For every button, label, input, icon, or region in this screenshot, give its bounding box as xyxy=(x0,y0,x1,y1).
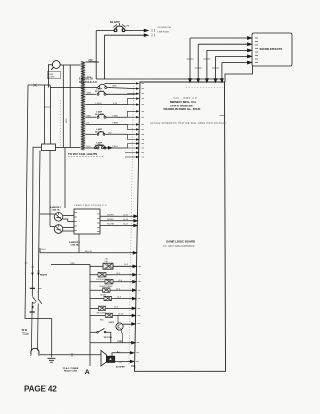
pin ticks speaker xyxy=(136,353,139,362)
svg-text:W-RED: W-RED xyxy=(107,219,114,221)
svg-text:6.3V: 6.3V xyxy=(113,103,118,105)
coil K5 xyxy=(90,296,136,300)
svg-text:115 VOLTS: 115 VOLTS xyxy=(79,77,93,81)
wire fuse line to plug arrow xyxy=(96,29,154,37)
credit multiplier board xyxy=(74,209,100,234)
wire blu-w line xyxy=(40,248,137,254)
svg-text:TILT SW.: TILT SW. xyxy=(104,337,113,339)
svg-text:BLU-W: BLU-W xyxy=(85,251,92,253)
transistor Q1 xyxy=(116,316,135,343)
svg-text:40 W: 40 W xyxy=(22,329,28,332)
wire tap fuse line 117.2 xyxy=(85,116,96,118)
pin tick pur xyxy=(137,342,140,344)
svg-text:W-ORN: W-ORN xyxy=(107,224,115,226)
svg-text:Y-BRN: Y-BRN xyxy=(112,123,119,125)
svg-text:16-17: 16-17 xyxy=(123,224,129,226)
tick on primary pair xyxy=(44,106,51,108)
thin tick right xyxy=(39,287,42,289)
connector tick marks on verticals xyxy=(187,59,220,68)
svg-text:FRANKLIN PARK ILL. 60131: FRANKLIN PARK ILL. 60131 xyxy=(164,107,202,111)
bold tick marks on bus xyxy=(30,288,35,312)
wire vertical from stub line xyxy=(104,35,106,79)
wire plug to transformer xyxy=(48,65,80,88)
svg-text:BELL: BELL xyxy=(100,320,105,322)
interlock switch box xyxy=(42,144,56,151)
label BLK tick xyxy=(89,61,96,63)
sound board pin ticks xyxy=(255,38,258,63)
junction tick xyxy=(71,353,73,357)
wire into box left xyxy=(33,65,112,153)
fuse F4 xyxy=(97,114,106,118)
wire red feed xyxy=(51,264,90,341)
wire AC bus left xyxy=(25,85,52,357)
junction mark on ac line xyxy=(34,84,37,87)
wire color labels xyxy=(87,86,119,149)
svg-text:SOUND EFFECTS: SOUND EFFECTS xyxy=(260,47,283,51)
svg-text:MIDWAY MFG. CO.: MIDWAY MFG. CO. xyxy=(170,100,197,104)
svg-text:RED: RED xyxy=(87,115,92,117)
svg-text:115V: 115V xyxy=(66,118,68,123)
underline dashes xyxy=(68,156,104,158)
svg-text:GRN: GRN xyxy=(112,86,117,88)
wire stub line 2 xyxy=(105,34,145,36)
svg-text:SLOW BLOW: SLOW BLOW xyxy=(158,27,172,29)
bus arrowheads xyxy=(31,273,40,276)
wire line 4 xyxy=(216,55,249,57)
transformer top tap xyxy=(85,61,99,63)
svg-text:Y-RED: Y-RED xyxy=(112,115,119,117)
wire line 5 xyxy=(222,62,249,64)
svg-text:CREDIT RELAY: CREDIT RELAY xyxy=(99,285,113,288)
svg-text:GRN: GRN xyxy=(87,92,92,94)
wire credit feed xyxy=(64,148,66,209)
ground xyxy=(48,358,56,362)
svg-text:GAME LOGIC BOARD: GAME LOGIC BOARD xyxy=(166,240,195,244)
svg-text:CON 7A: CON 7A xyxy=(52,208,60,211)
fuse F1 xyxy=(114,23,126,32)
svg-text:P.C. ASSY A080-91386-B000: P.C. ASSY A080-91386-B000 xyxy=(163,245,195,248)
wire tap 124.5 with fork down xyxy=(85,124,127,126)
wire pur line 1 xyxy=(90,341,135,344)
wires meters to credit board xyxy=(40,151,74,232)
svg-text:CORD: CORD xyxy=(49,77,56,79)
coil K7 xyxy=(90,313,136,317)
svg-text:RELAY CONT.: RELAY CONT. xyxy=(64,370,78,373)
svg-text:Y-BLU: Y-BLU xyxy=(112,146,118,148)
wire tap fuse line 148 xyxy=(85,147,96,149)
svg-text:BLU: BLU xyxy=(87,146,91,148)
svg-text:4Ω SPKR: 4Ω SPKR xyxy=(116,365,125,368)
speaker SP1 xyxy=(101,351,115,367)
junction ticks on buses xyxy=(25,263,40,271)
wire vertical from fuse line xyxy=(95,31,97,80)
115V AC line xyxy=(96,78,222,80)
wire primary vertical long 2 xyxy=(69,65,71,148)
connector dashes xyxy=(152,29,155,37)
svg-text:60 CYCLE A.C.: 60 CYCLE A.C. xyxy=(79,80,98,84)
labels credit wires xyxy=(107,214,129,225)
svg-text:TO 25V CAB. LIGHTS: TO 25V CAB. LIGHTS xyxy=(68,152,97,156)
connector dashed line left of board xyxy=(129,86,134,366)
svg-text:16-16: 16-16 xyxy=(123,219,129,221)
meter M2 xyxy=(54,225,63,234)
wire plug stem down to box xyxy=(44,85,46,144)
wires to sound board: line 1 xyxy=(189,37,253,83)
svg-text:CREDIT MULTIPLIER P.C.: CREDIT MULTIPLIER P.C. xyxy=(74,205,108,207)
cabinet fuse F6 xyxy=(95,145,104,149)
tilt switch S2 xyxy=(90,329,111,343)
transformer T1 winding xyxy=(81,62,85,150)
lamp L1 xyxy=(31,348,40,356)
svg-text:LINE: LINE xyxy=(49,74,54,76)
door switch contacts xyxy=(31,297,41,351)
wire plug left drop xyxy=(48,65,52,88)
wire line 3 xyxy=(207,49,249,51)
fuse F6 xyxy=(97,145,106,149)
wire lamp to speaker line xyxy=(40,354,102,356)
wire credit box drop xyxy=(78,234,80,253)
wire primary vertical long 1 xyxy=(62,65,64,148)
coil K6 xyxy=(90,306,136,310)
wire speaker leads xyxy=(112,352,135,369)
fuse F2 xyxy=(98,84,107,88)
coil K2 lockout xyxy=(90,272,136,277)
svg-text:SLO-BLO: SLO-BLO xyxy=(95,114,104,116)
svg-text:RED/W: RED/W xyxy=(40,274,47,276)
wire box to transformer bottom xyxy=(56,147,81,149)
board left edge pin arrows top group xyxy=(136,82,140,158)
wire bus to meter xyxy=(40,151,54,227)
coil K1 xyxy=(90,263,137,269)
wires credit board to logic pins xyxy=(100,215,137,227)
meter M1 xyxy=(54,213,63,222)
svg-text:3A 125V: 3A 125V xyxy=(110,21,120,24)
wire tap 104.6 with fork xyxy=(85,104,127,106)
svg-text:KNOCKER: KNOCKER xyxy=(97,313,107,315)
connector dashed line inside board top xyxy=(186,87,223,89)
wire lower stubs xyxy=(125,153,136,158)
wire top AC pin line xyxy=(105,82,136,84)
wire sound board return stub xyxy=(225,66,253,82)
svg-text:W-BRN: W-BRN xyxy=(107,214,114,216)
svg-text:ACTUAL SCHEMATIC THAT WE WILL: ACTUAL SCHEMATIC THAT WE WILL OPEN HIGH … xyxy=(150,122,226,125)
pin ticks lower group xyxy=(137,266,141,323)
credit board pin ticks xyxy=(74,213,100,232)
svg-text:CON 7B: CON 7B xyxy=(71,244,79,246)
svg-text:6.3V: 6.3V xyxy=(88,60,93,62)
svg-text:16-15: 16-15 xyxy=(123,214,129,216)
svg-text:16-10: 16-10 xyxy=(118,313,124,315)
small dark mark xyxy=(32,306,34,308)
wire bus 3 xyxy=(38,151,40,300)
svg-text:PUR: PUR xyxy=(118,341,123,343)
svg-text:SCR 1: SCR 1 xyxy=(109,322,116,324)
svg-text:A: A xyxy=(85,369,90,376)
svg-text:SLO-BLO: SLO-BLO xyxy=(95,132,104,134)
svg-text:TO A.C. POWER: TO A.C. POWER xyxy=(63,367,79,370)
dashed guide line xyxy=(60,100,62,148)
wire bus 2 xyxy=(31,153,34,297)
svg-text:LINE FUSE: LINE FUSE xyxy=(158,31,170,33)
fuse labels xyxy=(95,88,104,147)
wire line cord bus xyxy=(28,85,97,88)
pin arrows into board top xyxy=(189,79,192,83)
game logic board outline xyxy=(135,82,226,371)
line cord plug P1 xyxy=(51,61,60,70)
wire bus to node A xyxy=(89,341,91,366)
wire tap fuse line 2 xyxy=(85,93,96,95)
svg-text:SLO-BLO: SLO-BLO xyxy=(95,91,104,93)
right edge tick xyxy=(220,115,225,117)
svg-text:A METER 1: A METER 1 xyxy=(50,206,62,209)
line cord label box xyxy=(48,72,61,79)
svg-text:Y-GRN: Y-GRN xyxy=(95,103,102,105)
svg-text:BLU: BLU xyxy=(42,249,47,251)
coil K3 xyxy=(90,279,136,284)
wire tap 134.3 with small fuse F5 xyxy=(85,133,96,135)
coil K4 xyxy=(90,288,136,292)
svg-text:PAGE 42: PAGE 42 xyxy=(24,385,57,394)
fuse F3 xyxy=(97,91,106,95)
sound effects board box xyxy=(252,33,292,66)
pin number ticks inside board xyxy=(142,83,145,157)
wire line 2 xyxy=(198,43,248,45)
